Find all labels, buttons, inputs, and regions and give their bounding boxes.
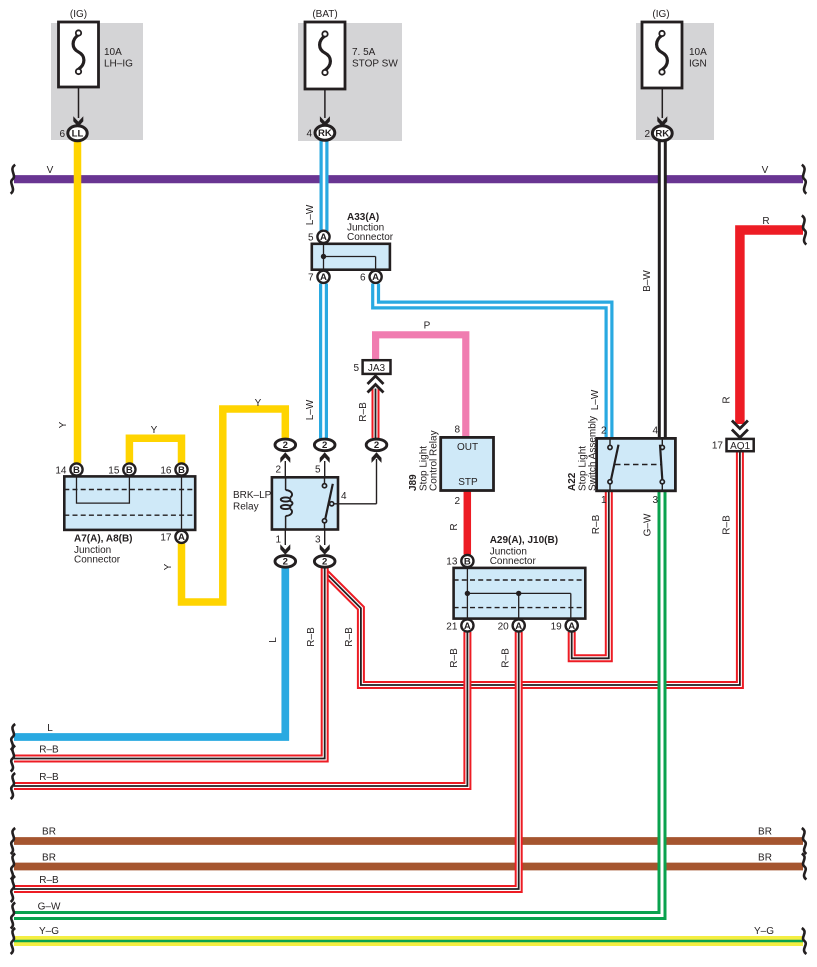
label A7(A), A8(B) Junction Connector: [74, 534, 133, 566]
svg-text:Connector: Connector: [74, 555, 121, 566]
pin 16 circle B of A7: [160, 463, 187, 476]
svg-text:B: B: [178, 465, 185, 476]
svg-text:G–W: G–W: [38, 901, 61, 912]
svg-text:R–B: R–B: [39, 744, 59, 755]
svg-text:BR: BR: [42, 826, 56, 837]
svg-text:10A: 10A: [104, 47, 122, 58]
svg-text:2: 2: [283, 440, 288, 451]
svg-text:G–W: G–W: [643, 513, 654, 536]
relay J89 Stop Light Control Relay box: [441, 437, 494, 490]
svg-text:6: 6: [59, 129, 65, 140]
arrow down into bottom oval pin 3: [320, 544, 330, 555]
svg-text:6: 6: [360, 272, 366, 283]
wire break symbol left of Y-G bus: [11, 928, 16, 954]
svg-text:15: 15: [108, 465, 120, 476]
svg-text:8: 8: [454, 424, 460, 435]
svg-text:BR: BR: [42, 852, 56, 863]
wire Y bridge between A7 pin 15 and pin 16: [129, 438, 181, 463]
svg-text:4: 4: [652, 426, 658, 437]
svg-text:R–B: R–B: [39, 875, 59, 886]
svg-text:(BAT): (BAT): [312, 9, 337, 20]
svg-text:A: A: [372, 272, 379, 283]
wire L from BRK-LP pin 1 oval down and left to edge: [14, 568, 285, 737]
svg-text:RK: RK: [318, 128, 332, 139]
svg-text:1: 1: [275, 535, 281, 546]
wire L-W from A33 pin 7 down to BRK-LP relay pin 5 oval: [319, 284, 328, 439]
svg-text:R: R: [722, 396, 733, 403]
svg-text:P: P: [424, 321, 431, 332]
junction connector A7(A) A8(B): [64, 476, 195, 530]
svg-text:STP: STP: [458, 477, 478, 488]
relay BRK-LP box: [272, 477, 338, 529]
fuse F2 7.5A STOP SW: [305, 9, 398, 89]
svg-text:A: A: [320, 232, 327, 243]
wire fuse F1 output: [78, 87, 80, 118]
svg-text:V: V: [47, 165, 54, 176]
label A29(A), J10(B) Junction Connector: [490, 535, 558, 567]
svg-text:Connector: Connector: [490, 556, 537, 567]
wire break symbol right of R wire: [802, 216, 807, 245]
pin 14 circle B of A7: [55, 463, 82, 476]
svg-text:B–W: B–W: [642, 270, 653, 292]
svg-text:V: V: [762, 165, 769, 176]
svg-text:OUT: OUT: [457, 442, 478, 453]
arrow into connector RK: [320, 116, 330, 127]
wire V violet main bus: [14, 175, 803, 183]
pin 17 circle A of A8: [160, 531, 187, 544]
wire BR bus upper: [14, 837, 803, 845]
svg-text:A22: A22: [567, 472, 578, 491]
svg-text:(IG): (IG): [70, 9, 87, 20]
svg-text:2: 2: [283, 557, 288, 568]
svg-text:LL: LL: [72, 129, 84, 140]
svg-text:2: 2: [374, 440, 379, 451]
svg-text:Y: Y: [151, 425, 158, 436]
connector oval RK pin 4: [306, 125, 334, 140]
svg-text:R: R: [449, 523, 460, 530]
wire break symbol right of BR upper: [802, 828, 807, 854]
connector oval 2 above relay pin 2: [275, 439, 296, 451]
fuse block background (IG) LH-IG: [51, 23, 143, 140]
arrow up into relay pin 2 oval: [280, 452, 290, 463]
wire break symbol right of BR lower: [802, 854, 807, 880]
junction connector A29(A) J10(B): [454, 568, 586, 619]
fuse block background (BAT) STOP SW: [298, 23, 402, 141]
svg-text:3: 3: [315, 535, 321, 546]
svg-text:L–W: L–W: [305, 399, 316, 420]
svg-text:Relay: Relay: [233, 502, 259, 513]
wire R from J89 pin 2 down to A29 pin 13: [464, 491, 472, 555]
svg-text:B: B: [73, 465, 80, 476]
wire break symbol left of R-B bus 2: [11, 773, 16, 799]
wire B-W from IGN fuse down to A22 pin 4: [658, 141, 667, 440]
wire break symbol left of BR upper: [11, 828, 16, 854]
connector oval 2 above relay pin 5: [314, 439, 335, 451]
svg-text:R–B: R–B: [591, 514, 602, 534]
pin 21 circle A of A29: [446, 619, 473, 632]
svg-text:A: A: [568, 621, 575, 632]
svg-text:7. 5A: 7. 5A: [352, 47, 376, 58]
svg-text:BR: BR: [758, 852, 772, 863]
svg-text:R–B: R–B: [344, 627, 355, 647]
relay coil: [281, 477, 293, 529]
svg-text:BRK–LP: BRK–LP: [233, 490, 272, 501]
svg-text:L: L: [268, 637, 279, 643]
svg-text:2: 2: [454, 496, 460, 507]
arrow up into relay pin 4 oval: [372, 452, 382, 463]
svg-text:A7(A), A8(B): A7(A), A8(B): [74, 534, 133, 545]
svg-text:BR: BR: [758, 826, 772, 837]
wire G-W from A22 pin 3 down and left to edge: [14, 490, 662, 916]
wire break symbol right of Y-G bus: [802, 928, 807, 954]
wire break symbol left of G-W bus: [11, 903, 16, 929]
svg-text:2: 2: [322, 557, 327, 568]
svg-text:A: A: [178, 532, 185, 543]
wire L-W from A33 pin 6 to A22 pin 2: [376, 284, 609, 440]
switch A22 Stop Light Switch Assembly box: [597, 438, 676, 490]
wire relay pin 4 to oval: [334, 503, 377, 505]
wire R-B from BRK-LP pin 3 oval down and left to edge: [14, 568, 325, 759]
svg-text:10A: 10A: [689, 47, 707, 58]
label A33(A) Junction Connector: [347, 212, 394, 243]
svg-text:2: 2: [275, 464, 281, 475]
label Stop Light Switch Assembly vertical: [578, 416, 599, 491]
wire relay pin 3 lead: [324, 530, 326, 546]
connector oval 2 below relay pin 1: [275, 556, 296, 568]
pin 5 circle A of A33: [308, 231, 330, 244]
svg-text:16: 16: [160, 465, 172, 476]
wire R-B from A29 pin 19 up to A22 pin 1: [572, 490, 609, 658]
svg-text:4: 4: [341, 491, 347, 502]
svg-text:1: 1: [601, 495, 607, 506]
connector oval 2 above relay pin 4: [366, 439, 387, 451]
svg-text:Connector: Connector: [347, 232, 394, 243]
svg-text:21: 21: [446, 621, 458, 632]
arrow into connector RK right: [657, 116, 667, 127]
wire break symbol left of L bus: [11, 724, 16, 750]
svg-text:A29(A), J10(B): A29(A), J10(B): [490, 535, 558, 546]
svg-text:R–B: R–B: [39, 772, 59, 783]
svg-text:A: A: [464, 621, 471, 632]
svg-text:A: A: [515, 621, 522, 632]
svg-text:20: 20: [498, 621, 510, 632]
fuse F3 10A IGN: [642, 9, 707, 88]
svg-text:IGN: IGN: [689, 59, 707, 70]
wire fuse F2 output: [324, 89, 326, 118]
fuse block background (IG) IGN: [636, 23, 714, 140]
svg-text:17: 17: [712, 441, 724, 452]
pin 13 circle B of A29: [446, 555, 473, 568]
svg-text:STOP SW: STOP SW: [352, 59, 398, 70]
connector oval 2 below relay pin 3: [314, 556, 335, 568]
wire break symbol right of V bus: [802, 165, 807, 194]
connector oval RK pin 2: [644, 126, 672, 141]
wire break symbol left of BR lower: [11, 854, 16, 880]
wire break symbol left of R-B bus 3: [11, 876, 16, 902]
svg-text:R: R: [762, 216, 769, 227]
svg-text:B: B: [464, 556, 471, 567]
svg-text:J89: J89: [408, 474, 419, 491]
svg-text:L–W: L–W: [305, 204, 316, 225]
svg-text:Y: Y: [163, 563, 174, 570]
wire relay pin 1 lead: [284, 530, 286, 546]
svg-text:Y–G: Y–G: [39, 926, 59, 937]
svg-text:RK: RK: [655, 129, 669, 140]
svg-text:2: 2: [601, 426, 607, 437]
svg-text:A: A: [320, 272, 327, 283]
connector oval LL pin 6: [59, 126, 87, 141]
junction block AQ1 pin 17: [712, 439, 754, 452]
svg-text:5: 5: [315, 464, 321, 475]
arrow into connector LL: [73, 116, 83, 127]
svg-text:R–B: R–B: [306, 627, 317, 647]
wire relay pin 2 lead: [284, 461, 286, 477]
arrow up into relay pin 5 oval: [320, 452, 330, 463]
junction connector A33(A): [312, 244, 390, 270]
wire R-B from A29 pin 21 down and left to edge: [14, 632, 467, 786]
wire Y from LH-IG fuse down to A7 pin 14: [74, 141, 82, 464]
wire fuse F3 output: [661, 88, 663, 118]
svg-text:5: 5: [308, 232, 314, 243]
svg-text:(IG): (IG): [652, 9, 669, 20]
wire R-B from A29 pin 20 down and left to edge: [14, 632, 519, 889]
svg-text:Control Relay: Control Relay: [429, 430, 440, 491]
svg-text:R–B: R–B: [501, 648, 512, 668]
pin 19 circle A of A29: [551, 619, 578, 632]
wire relay pin 5 lead: [324, 461, 326, 477]
pin 7 circle A of A33: [308, 271, 330, 284]
svg-text:13: 13: [446, 557, 458, 568]
svg-text:Y–G: Y–G: [754, 926, 774, 937]
svg-text:2: 2: [322, 440, 327, 451]
junction block JA3 pin 5: [353, 360, 390, 374]
svg-text:A33(A): A33(A): [347, 212, 379, 223]
svg-text:19: 19: [551, 621, 563, 632]
svg-text:Y: Y: [255, 398, 262, 409]
svg-text:AQ1: AQ1: [730, 441, 750, 452]
wire P from JA3 to J89 pin 8: [376, 335, 466, 438]
svg-text:7: 7: [308, 272, 314, 283]
svg-text:17: 17: [160, 533, 172, 544]
wire Y from A7 pin 17 to BRK-LP relay pin 2: [182, 409, 286, 602]
wire L-W from STOP SW fuse down to A33 pin 5: [320, 141, 329, 232]
arrow double chevron into AQ1: [732, 421, 748, 438]
wire R-B from BRK-LP pin 4 oval up to JA3: [372, 389, 380, 439]
svg-text:B: B: [126, 465, 133, 476]
label Stop Light Control Relay vertical: [419, 430, 440, 491]
wire R from right edge to AQ1: [740, 230, 803, 424]
arrow down into bottom oval pin 1: [280, 544, 290, 555]
wire break symbol left of V bus: [11, 165, 16, 194]
svg-text:14: 14: [55, 465, 67, 476]
relay switch contacts: [322, 477, 333, 529]
svg-text:R–B: R–B: [722, 515, 733, 535]
svg-text:L: L: [47, 723, 53, 734]
wire R-B from BRK-LP pin 3 oval diagonal then across to AQ1: [325, 451, 740, 686]
arrow double chevron into JA3: [368, 376, 384, 393]
wire break symbol left of R-B bus 1: [11, 746, 16, 772]
wire Y-G bus: [14, 936, 803, 946]
pin 15 circle B of A7: [108, 463, 135, 476]
svg-text:JA3: JA3: [368, 363, 386, 374]
svg-text:3: 3: [652, 495, 658, 506]
fuse F1 10A LH-IG: [59, 9, 134, 87]
wire BR bus lower: [14, 863, 803, 871]
label BRK-LP Relay: [233, 490, 272, 513]
svg-text:R–B: R–B: [358, 402, 369, 422]
svg-text:Y: Y: [58, 421, 69, 428]
pin 6 circle A of A33: [360, 271, 382, 284]
svg-text:LH–IG: LH–IG: [104, 59, 133, 70]
svg-text:5: 5: [353, 363, 359, 374]
svg-text:R–B: R–B: [449, 648, 460, 668]
svg-text:L–W: L–W: [590, 389, 601, 410]
svg-text:Switch Assembly: Switch Assembly: [588, 416, 599, 491]
svg-text:4: 4: [306, 128, 312, 139]
pin 20 circle A of A29: [498, 619, 525, 632]
svg-text:2: 2: [644, 129, 650, 140]
